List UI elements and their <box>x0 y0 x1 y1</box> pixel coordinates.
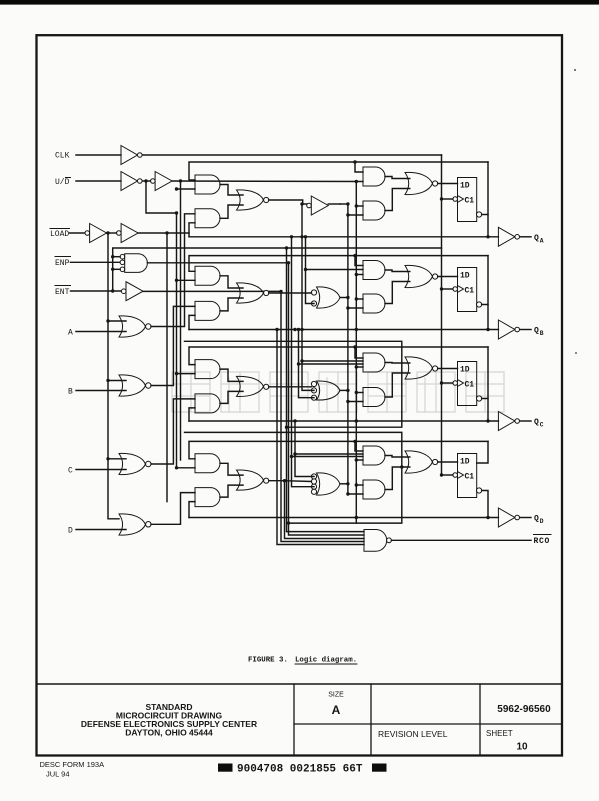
svg-text:SHEET: SHEET <box>486 729 513 738</box>
svg-text:C: C <box>68 467 73 476</box>
svg-text:U/D: U/D <box>55 178 70 187</box>
svg-text:DAYTON, OHIO 45444: DAYTON, OHIO 45444 <box>125 728 213 738</box>
svg-text:C: C <box>540 422 544 429</box>
svg-text:ENP: ENP <box>55 259 70 268</box>
svg-text:C1: C1 <box>465 287 475 296</box>
svg-text:1D: 1D <box>460 272 470 281</box>
svg-text:5962-96560: 5962-96560 <box>497 704 551 715</box>
svg-text:A: A <box>332 703 341 717</box>
svg-text:C1: C1 <box>465 381 475 390</box>
svg-text:1D: 1D <box>460 366 470 375</box>
svg-text:ENT: ENT <box>55 288 70 297</box>
svg-text:Q: Q <box>534 234 539 243</box>
svg-text:C1: C1 <box>465 197 475 206</box>
svg-text:1D: 1D <box>460 458 470 467</box>
svg-text:CLK: CLK <box>55 152 70 161</box>
svg-text:SIZE: SIZE <box>328 692 344 699</box>
svg-text:FIGURE 3.: FIGURE 3. <box>248 657 288 665</box>
svg-text:B: B <box>540 330 544 337</box>
svg-text:Q: Q <box>534 327 539 336</box>
svg-text:A: A <box>540 237 544 244</box>
svg-text:C1: C1 <box>465 473 475 482</box>
svg-text:Logic diagram.: Logic diagram. <box>295 657 357 665</box>
svg-text:10: 10 <box>516 742 528 753</box>
svg-text:JUL 94: JUL 94 <box>46 770 70 779</box>
svg-text:D: D <box>540 518 544 525</box>
svg-text:REVISION LEVEL: REVISION LEVEL <box>378 729 448 739</box>
svg-text:A: A <box>68 329 73 338</box>
svg-text:1D: 1D <box>460 182 470 191</box>
svg-text:9004708 0021855 66T: 9004708 0021855 66T <box>237 764 363 776</box>
svg-text:Q: Q <box>534 418 539 427</box>
svg-text:Q: Q <box>534 515 539 524</box>
svg-text:B: B <box>68 388 73 397</box>
svg-text:DESC FORM 193A: DESC FORM 193A <box>40 760 105 769</box>
svg-text:RCO: RCO <box>534 537 551 546</box>
svg-text:D: D <box>68 527 73 536</box>
svg-text:LOAD: LOAD <box>50 230 69 239</box>
